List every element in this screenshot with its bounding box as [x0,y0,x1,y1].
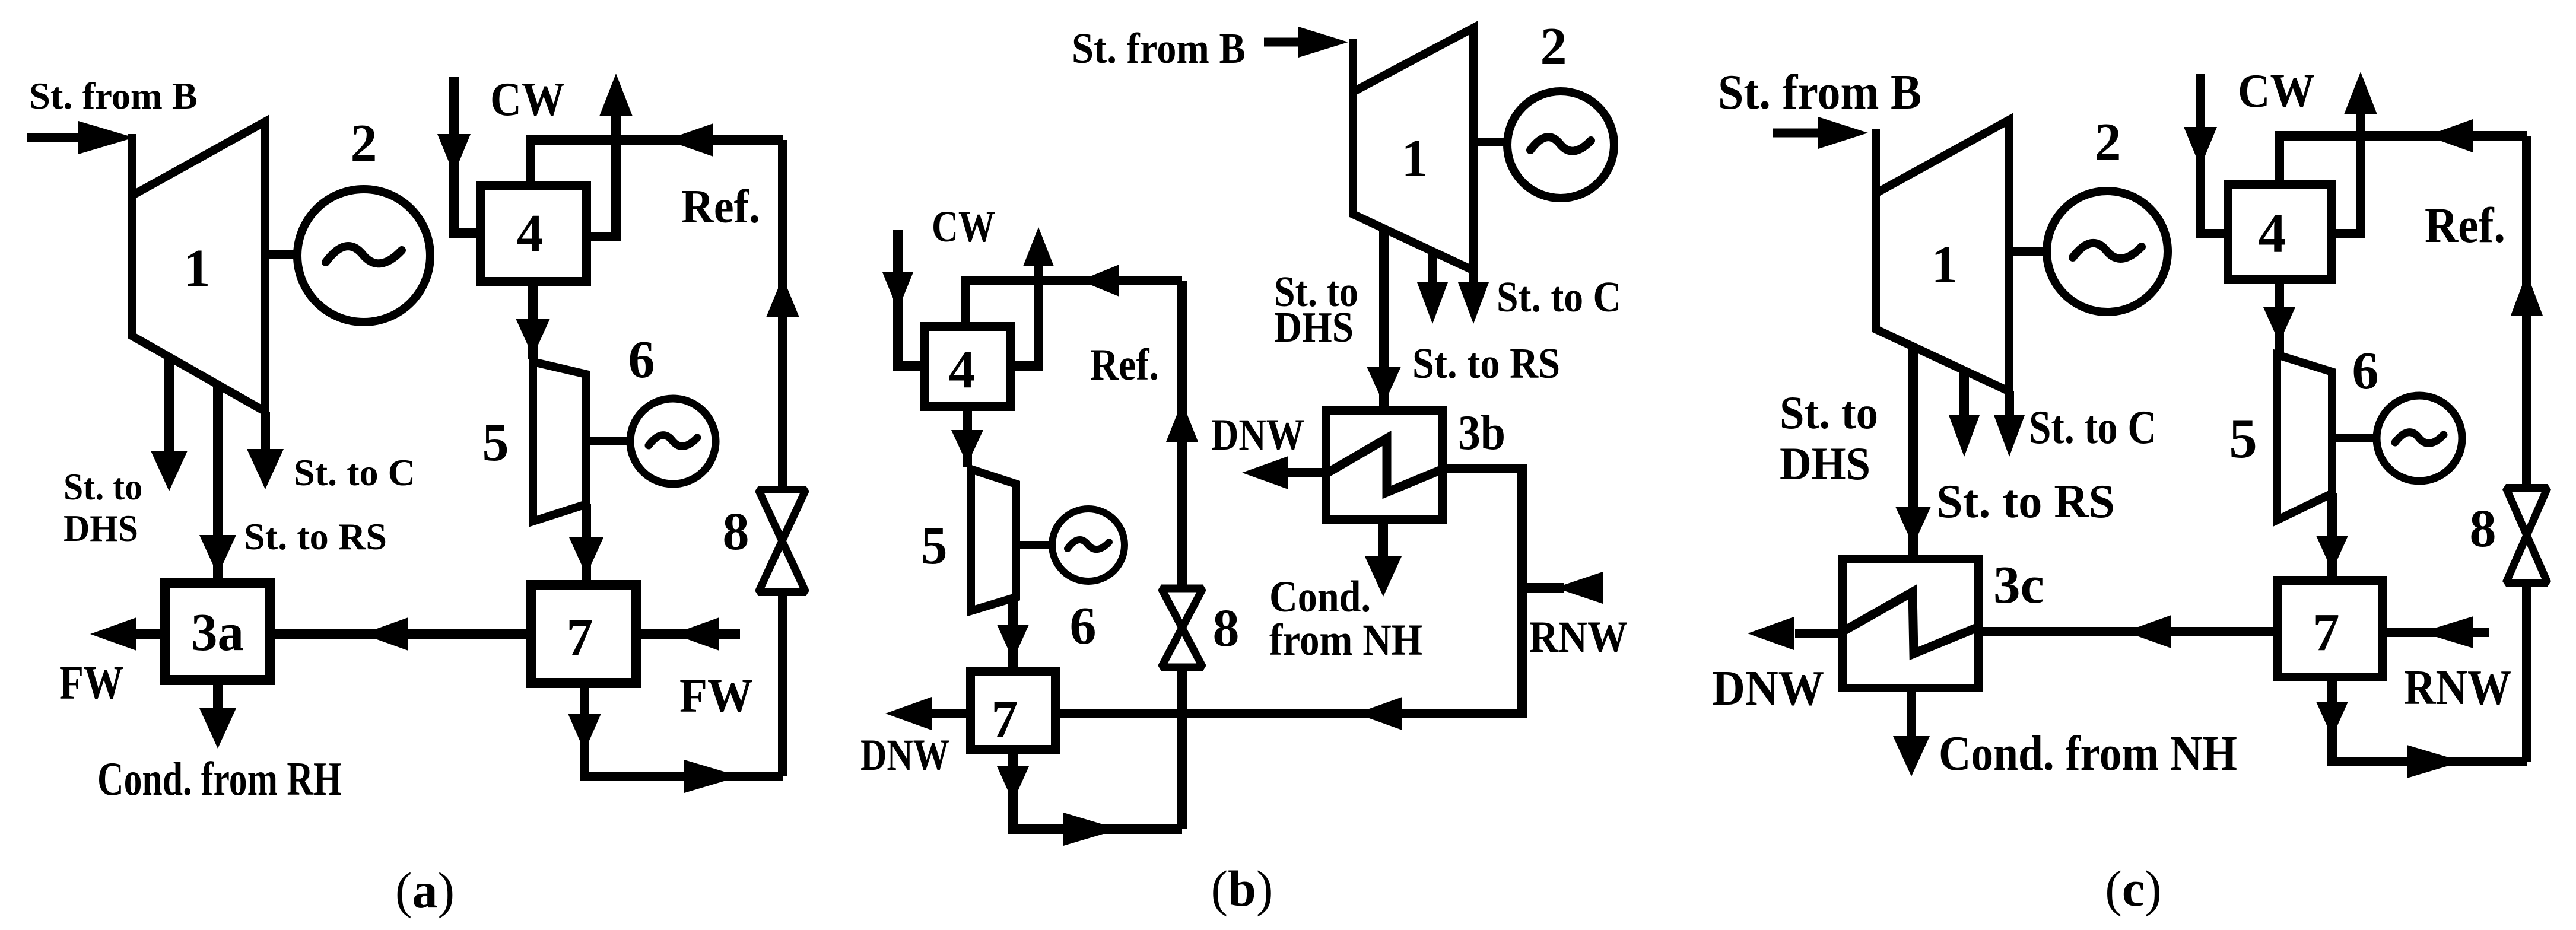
svg-text:St. to: St. to [1780,387,1878,438]
wire St. to RS (a) [213,384,223,580]
zigzag 3b [1326,438,1443,492]
wire 5 to 7 (b) [1008,597,1018,671]
wire St. to C first (c) [1959,371,1969,415]
svg-text:6: 6 [628,330,655,389]
svg-text:DNW: DNW [1211,410,1304,460]
wire FW in (a) [641,629,740,639]
wire 5 to 7 (a) [582,504,591,583]
generator 2 (b) [1507,91,1614,198]
wire generator shaft (c) [2009,247,2048,256]
valve 8 (c) [2506,488,2548,536]
svg-text:Cond. from RH: Cond. from RH [97,753,342,805]
wire cond from RH (a) [213,685,223,715]
wire 7 to valve 8 (c) [2332,681,2527,762]
svg-text:CW: CW [2238,64,2315,117]
wire generator shaft (b2) [1016,541,1053,549]
wire Ref. into 4 (a) [531,140,783,181]
svg-text:CW: CW [490,74,565,126]
turbine 5 (c) [2277,355,2332,520]
wire generator shaft (c2) [2332,434,2378,442]
svg-text:8: 8 [2470,499,2496,558]
wire Ref. riser (c) [2522,585,2531,762]
svg-text:St. from B: St. from B [29,75,198,117]
wire St. to DHS/RS (c) [1908,346,1918,559]
svg-text:DHS: DHS [1274,303,1354,351]
wire St. to DHS (a) [164,357,174,456]
svg-text:7: 7 [567,608,593,667]
wire CW out (a) [591,114,616,237]
wire Ref. into 4 (c) [2279,136,2527,180]
wire Ref. riser (b) [1177,669,1187,829]
svg-text:St. to C: St. to C [2029,400,2156,454]
wire cond from NH (b) [1378,524,1388,560]
svg-text:2: 2 [1540,17,1567,76]
svg-text:5: 5 [482,413,509,472]
svg-text:4: 4 [517,204,544,263]
svg-text:2: 2 [2095,113,2121,171]
condenser 7 (a) [532,585,637,683]
heater 4 (c) [2228,184,2332,279]
svg-text:5: 5 [2229,407,2257,470]
svg-text:3a: 3a [191,603,244,662]
wire St. to DHS/RS (b) [1379,228,1389,410]
svg-text:Ref.: Ref. [2425,198,2505,253]
condenser 7 (b) [971,671,1056,750]
generator 2 (a) [297,189,430,322]
svg-text:DNW: DNW [1712,661,1824,716]
svg-text:Ref.: Ref. [1090,340,1159,390]
turbine 1 (a) [132,122,265,412]
svg-text:St. from B: St. from B [1072,24,1246,72]
svg-text:DHS: DHS [63,508,138,549]
valve 8 (a) [758,490,806,542]
svg-text:Cond.: Cond. [1269,572,1371,622]
wire CW in (c) [2200,74,2228,234]
wire steam inlet (a) [27,133,89,142]
svg-text:4: 4 [949,340,976,399]
svg-text:(a): (a) [395,862,455,919]
valve 8 (b) [1161,588,1203,628]
wire 7 to valve 8 (b) [1013,754,1182,829]
svg-text:St. to C: St. to C [294,452,415,493]
turbine 1 (b) [1353,28,1473,270]
generator 6 (a) [630,399,716,484]
svg-text:St. from B: St. from B [1718,65,1921,120]
wire steam inlet (b) [1264,38,1306,47]
svg-text:2: 2 [351,114,377,173]
svg-text:(c): (c) [2105,860,2161,917]
heater 4 (b) [925,327,1011,407]
svg-text:7: 7 [2313,603,2340,662]
svg-text:4: 4 [2258,202,2286,265]
svg-text:7: 7 [992,690,1018,749]
heater 4 (a) [481,186,586,282]
svg-text:3b: 3b [1458,405,1505,460]
wire cond from NH (c) [1907,692,1916,738]
svg-text:St. to RS: St. to RS [1936,474,2115,528]
svg-text:6: 6 [1070,597,1097,655]
svg-text:FW: FW [679,670,753,722]
mixer 3a [165,584,270,680]
svg-text:3c: 3c [1993,556,2044,614]
wire CW out (b) [1011,265,1038,366]
condenser 7 (c) [2278,581,2383,677]
svg-text:Ref.: Ref. [681,181,760,233]
generator 6 (c) [2377,396,2462,481]
generator 2 (c) [2047,191,2168,312]
wire St. to C second (c) [2005,391,2014,415]
wire 7 to valve 8 (a) [585,688,783,776]
heat exchanger 3c [1843,559,1978,688]
wire CW out (c) [2332,113,2361,234]
svg-text:St. to C: St. to C [1497,273,1621,321]
wire St. to C first (b) [1428,251,1437,285]
wire RNW in (b) [1522,583,1564,593]
svg-text:1: 1 [184,239,211,298]
wire Ref. into 4 (b) [965,281,1182,322]
wire generator shaft (a2) [586,437,631,445]
svg-text:8: 8 [1213,599,1240,658]
svg-text:St. to RS: St. to RS [1412,339,1560,387]
svg-text:Cond. from NH: Cond. from NH [1939,726,2237,781]
wire 4 to 5 (b) [963,411,972,467]
svg-text:DHS: DHS [1780,438,1870,489]
wire 4 to 5 (c) [2275,284,2284,353]
wire RNW in (c) [2387,628,2489,637]
turbine 1 (c) [1876,120,2009,391]
svg-text:DNW: DNW [860,731,949,780]
wire generator shaft (a) [265,250,298,259]
svg-text:FW: FW [59,657,123,709]
svg-text:St. to RS: St. to RS [244,516,387,558]
svg-text:5: 5 [921,517,948,575]
svg-text:from NH: from NH [1269,616,1422,665]
wire 4 to 5 (a) [528,286,538,359]
wire CW in (b) [898,230,924,366]
wire 5 to 7 (c) [2327,493,2337,580]
wire DNW out (c) [1795,629,1838,638]
wire FW out (a) [136,629,160,639]
wire DNW out (b) [1285,468,1323,477]
svg-text:CW: CW [932,202,995,251]
heat exchanger 3b [1326,410,1443,520]
turbine 5 (a) [533,362,586,521]
wire steam inlet (c) [1773,129,1828,138]
turbine 5 (b) [971,469,1016,611]
zigzag 3c [1843,592,1978,654]
wire DNW out bottom (b) [929,709,966,718]
svg-text:(b): (b) [1211,860,1273,917]
generator 6 (b) [1052,509,1125,581]
wire St. to C (a) [261,412,270,454]
wire generator shaft (b) [1473,138,1510,146]
wire St. to C second (b) [1469,270,1478,285]
svg-text:St. to: St. to [63,466,142,508]
svg-text:RNW: RNW [1529,613,1628,662]
svg-text:1: 1 [1932,235,1958,294]
svg-text:8: 8 [723,502,749,561]
svg-text:6: 6 [2352,342,2379,400]
wire 3b to 7 loop (b) [1056,469,1522,714]
wire CW in (a) [454,77,476,233]
wire Ref. riser (a) [778,593,787,776]
wire 7 to 3a [275,629,526,639]
svg-text:RNW: RNW [2404,660,2511,715]
wire 7 to 3c (c) [1983,627,2278,636]
svg-text:1: 1 [1402,129,1428,188]
